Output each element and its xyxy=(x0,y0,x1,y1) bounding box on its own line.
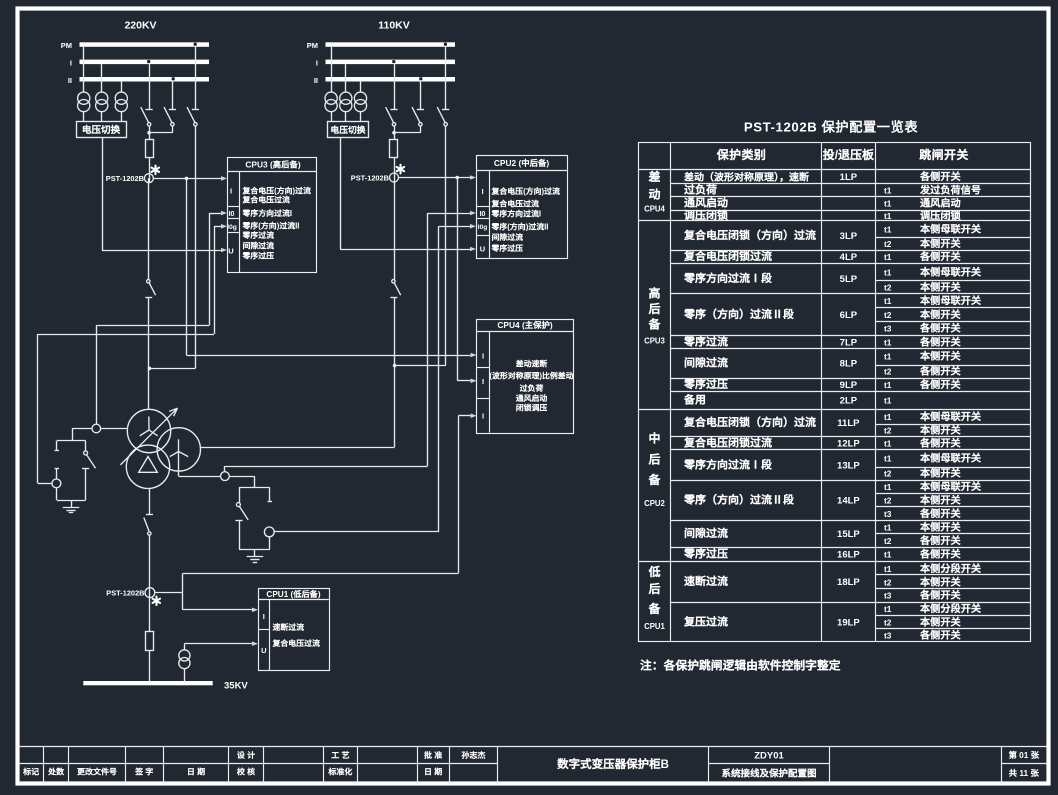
svg-text:零序方向过流Ⅰ段: 零序方向过流Ⅰ段 xyxy=(683,456,773,472)
earth switch 2 pivot xyxy=(236,503,240,507)
svg-text:动: 动 xyxy=(648,186,660,203)
svg-text:t1: t1 xyxy=(884,211,892,221)
svg-text:复压过流: 复压过流 xyxy=(683,613,728,629)
star mark 35kV xyxy=(155,597,157,606)
ZDY01 cell mid line xyxy=(709,763,830,765)
svg-text:CPU1 (低后备): CPU1 (低后备) xyxy=(266,588,320,600)
voltage transformer PT6 110kV xyxy=(354,92,366,104)
wire CPU3 I0 input run xyxy=(209,213,221,215)
wire CT4 tap right xyxy=(155,592,183,594)
svg-text:I: I xyxy=(482,377,484,386)
svg-text:ZDY01: ZDY01 xyxy=(754,751,784,762)
svg-text:调压闭锁: 调压闭锁 xyxy=(684,207,729,223)
voltage transformer PT1 220kV xyxy=(78,92,90,104)
table column lines xyxy=(670,142,672,641)
wire QS5 to junction xyxy=(420,126,422,133)
svg-text:中: 中 xyxy=(648,429,660,446)
svg-text:本侧母联开关: 本侧母联开关 xyxy=(919,220,982,235)
svg-text:电压切换: 电压切换 xyxy=(330,123,365,136)
CT neutral 220kV xyxy=(92,424,101,433)
svg-text:1LP: 1LP xyxy=(840,172,858,183)
breaker switch 110kV xyxy=(392,280,395,283)
wire PT5 drop xyxy=(345,64,347,92)
svg-text:差动速断: 差动速断 xyxy=(515,359,548,370)
transformer T1 LV winding (delta) xyxy=(126,445,169,488)
svg-text:零序（方向）过流Ⅱ段: 零序（方向）过流Ⅱ段 xyxy=(683,492,795,508)
earth switch 1 bottom xyxy=(57,500,86,502)
wire PT35 to CPU1 U xyxy=(184,644,186,650)
svg-text:II: II xyxy=(314,76,318,85)
wire fuse to CT1 xyxy=(149,157,151,182)
svg-text:后: 后 xyxy=(647,580,660,597)
svg-text:6LP: 6LP xyxy=(840,310,858,321)
wire CT3 tap to CPU2 I0g xyxy=(274,531,439,533)
svg-text:复合电压过流: 复合电压过流 xyxy=(272,638,320,649)
bus PM 110kV xyxy=(326,42,456,47)
svg-text:校 核: 校 核 xyxy=(236,767,255,778)
svg-text:PST-1202B: PST-1202B xyxy=(351,173,389,182)
svg-text:差: 差 xyxy=(647,168,660,185)
table header bottom xyxy=(639,169,1031,171)
svg-text:零序方向过流I: 零序方向过流I xyxy=(242,208,293,219)
svg-text:复合电压闭锁过流: 复合电压闭锁过流 xyxy=(683,248,772,264)
svg-text:t2: t2 xyxy=(884,310,892,320)
node on bus I 110kV xyxy=(392,60,395,63)
CT PST-1202B 35kV xyxy=(145,588,155,598)
svg-text:批 准: 批 准 xyxy=(424,750,442,761)
fuse F2 110kV xyxy=(390,140,398,158)
earth switch 1 left branch xyxy=(56,441,58,451)
wire neutral2 to switch xyxy=(229,476,254,478)
svg-text:备: 备 xyxy=(647,471,661,488)
svg-text:t1: t1 xyxy=(884,252,892,262)
wire node D to CPU4 I2 input xyxy=(457,178,459,381)
svg-text:t2: t2 xyxy=(884,469,892,479)
title block mid line left xyxy=(19,763,498,765)
svg-text:14LP: 14LP xyxy=(837,496,860,507)
CT earth 110kV xyxy=(264,527,274,537)
svg-text:I0: I0 xyxy=(480,211,486,218)
svg-text:t1: t1 xyxy=(884,564,892,574)
CPU3 input arrows xyxy=(221,176,227,181)
disconnector QS2 220kV xyxy=(172,82,174,110)
switch3 pivot xyxy=(148,532,151,535)
op-box CPU2 (110kV backup) outline xyxy=(477,156,568,259)
svg-text:本侧母联开关: 本侧母联开关 xyxy=(919,263,982,278)
svg-text:复合电压闭锁（方向）过流: 复合电压闭锁（方向）过流 xyxy=(683,227,816,243)
earth switch 1 right stub xyxy=(85,441,87,451)
svg-text:t1: t1 xyxy=(884,550,892,560)
svg-text:15LP: 15LP xyxy=(837,529,860,540)
svg-text:间隙过流: 间隙过流 xyxy=(684,355,728,371)
svg-text:孙志杰: 孙志杰 xyxy=(462,750,486,761)
wire switch3 to CT4 xyxy=(149,535,151,597)
CT earth 220kV xyxy=(52,479,61,488)
table sub-row lines xyxy=(876,237,1031,239)
svg-text:本侧母联开关: 本侧母联开关 xyxy=(919,450,982,465)
svg-text:16LP: 16LP xyxy=(837,550,860,561)
disconnector QS4 110kV xyxy=(394,64,396,110)
svg-text:t1: t1 xyxy=(884,224,892,234)
wire VT box to CPU3 U input xyxy=(102,137,104,250)
svg-text:本侧母联开关: 本侧母联开关 xyxy=(919,292,982,307)
CPU1 input arrows xyxy=(252,608,258,613)
breaker switch 220kV xyxy=(147,280,150,283)
svg-text:数字式变压器保护柜B: 数字式变压器保护柜B xyxy=(556,756,669,772)
wire QS2 to junction xyxy=(172,126,174,133)
svg-text:CPU1: CPU1 xyxy=(644,622,665,631)
node C main2/QS6 xyxy=(393,364,397,368)
svg-text:110KV: 110KV xyxy=(378,20,410,32)
wire PT4 to box xyxy=(331,112,333,122)
earth switch 2 right lower xyxy=(269,537,271,549)
wire PT4 drop xyxy=(331,47,333,92)
disconnector QS3 220kV xyxy=(195,47,197,110)
wire QS3 drop to node A xyxy=(195,126,197,368)
svg-text:各侧开关: 各侧开关 xyxy=(919,248,962,263)
svg-text:注：各保护跳闸逻辑由软件控制字整定: 注：各保护跳闸逻辑由软件控制字整定 xyxy=(640,657,841,674)
wire QS6 drop to node C xyxy=(445,126,447,366)
wire fuse2 to CT2 xyxy=(394,157,396,182)
svg-text:I0g: I0g xyxy=(478,224,488,231)
svg-text:工 艺: 工 艺 xyxy=(331,750,349,761)
wire PT5 to box xyxy=(345,112,347,122)
wire fuse3 to bus xyxy=(149,651,151,681)
svg-text:复合电压闭锁过流: 复合电压闭锁过流 xyxy=(683,435,772,451)
svg-text:5LP: 5LP xyxy=(840,274,858,285)
op-box CPU3 (220kV backup) outline xyxy=(228,158,317,273)
svg-text:I: I xyxy=(481,187,483,196)
svg-text:CPU4 (主保护): CPU4 (主保护) xyxy=(497,319,553,331)
wire PT2 to box xyxy=(101,112,103,122)
svg-text:各侧开关: 各侧开关 xyxy=(919,546,962,561)
svg-text:标记: 标记 xyxy=(22,767,39,778)
wire CT2 to CPU2 I input xyxy=(398,177,470,179)
table row lines xyxy=(670,183,1030,185)
svg-text:本侧分段开关: 本侧分段开关 xyxy=(919,560,982,575)
wire PT6 drop xyxy=(360,82,362,93)
transformer T1 MV winding xyxy=(157,428,200,471)
svg-text:(波形对称原理)比例差动: (波形对称原理)比例差动 xyxy=(489,371,573,382)
svg-text:I: I xyxy=(316,58,318,67)
svg-text:复合电压过流: 复合电压过流 xyxy=(242,195,290,206)
svg-text:零序过压: 零序过压 xyxy=(683,546,728,562)
voltage switching box 220kV xyxy=(77,122,127,138)
disconnector QS1 220kV xyxy=(149,64,151,110)
CPU2 pin dividers xyxy=(476,206,489,208)
svg-text:零序过压: 零序过压 xyxy=(683,376,728,392)
svg-text:t2: t2 xyxy=(884,617,892,627)
node on bus II 220kV xyxy=(172,77,175,80)
voltage transformer PT3 220kV xyxy=(115,92,127,104)
svg-text:各侧开关: 各侧开关 xyxy=(919,320,962,335)
svg-text:间隙过流: 间隙过流 xyxy=(684,525,728,541)
svg-text:低: 低 xyxy=(647,563,660,580)
table outer box xyxy=(639,143,1031,642)
voltage transformer PT2 220kV xyxy=(96,92,108,104)
svg-text:后: 后 xyxy=(647,451,660,468)
svg-text:t1: t1 xyxy=(884,380,892,390)
svg-text:t2: t2 xyxy=(884,536,892,546)
svg-text:I0: I0 xyxy=(229,211,235,218)
svg-text:零序方向过流Ⅰ段: 零序方向过流Ⅰ段 xyxy=(683,270,773,286)
node QS1/QS2 junction xyxy=(147,131,151,135)
node B on CPU3 wire xyxy=(185,177,189,181)
earth switch 2 left stub xyxy=(239,488,241,503)
svg-text:I: I xyxy=(263,612,265,621)
disconnector QS5 110kV xyxy=(420,82,422,110)
svg-text:3LP: 3LP xyxy=(840,231,858,242)
svg-text:I: I xyxy=(482,351,484,360)
svg-text:保护类别: 保护类别 xyxy=(716,146,767,163)
svg-text:I: I xyxy=(70,58,72,67)
svg-text:t2: t2 xyxy=(884,283,892,293)
svg-text:各侧开关: 各侧开关 xyxy=(919,626,962,641)
svg-text:更改文件号: 更改文件号 xyxy=(77,767,117,778)
svg-text:PST-1202B 保护配置一览表: PST-1202B 保护配置一览表 xyxy=(744,119,919,135)
earth switch 2 crossbar xyxy=(235,520,242,522)
fuse F3 35kV xyxy=(146,632,154,651)
wire PT6 to box xyxy=(360,112,362,122)
earth switch 1 left lower xyxy=(56,488,58,500)
node QS4/QS5 junction xyxy=(392,131,396,135)
wire CT4 to fuse3 xyxy=(149,598,151,632)
earth switch 1 pivot xyxy=(84,451,88,455)
op-box CPU1 (35kV backup) outline xyxy=(259,589,330,671)
wire QS1 to fuse xyxy=(149,126,151,140)
svg-text:I0g: I0g xyxy=(227,224,237,231)
svg-text:速断过流: 速断过流 xyxy=(273,622,305,633)
svg-text:CPU3: CPU3 xyxy=(644,337,665,346)
svg-text:t2: t2 xyxy=(884,578,892,588)
svg-text:t1: t1 xyxy=(884,338,892,348)
CT neutral 110kV xyxy=(221,472,230,481)
title block vertical lines xyxy=(43,747,45,783)
transformer T1 HV winding xyxy=(127,409,170,452)
svg-text:t3: t3 xyxy=(884,509,892,519)
bus 35kV xyxy=(83,681,212,685)
svg-text:签 字: 签 字 xyxy=(134,767,153,778)
svg-text:13LP: 13LP xyxy=(837,460,860,471)
svg-text:闭锁调压: 闭锁调压 xyxy=(516,403,548,414)
svg-text:第 01 张: 第 01 张 xyxy=(1008,749,1040,761)
svg-text:电压切换: 电压切换 xyxy=(82,122,121,136)
wire to CPU4 I3 and CPU1 I xyxy=(182,573,184,609)
svg-text:后: 后 xyxy=(647,300,660,317)
svg-text:系统接线及保护配置图: 系统接线及保护配置图 xyxy=(721,766,816,780)
svg-text:t1: t1 xyxy=(884,395,892,405)
svg-text:CPU3 (高后备): CPU3 (高后备) xyxy=(245,158,301,170)
tap-changer arrow xyxy=(120,408,177,465)
svg-text:零序方向过流I: 零序方向过流I xyxy=(491,209,542,220)
CPU4 pin dividers xyxy=(477,367,490,369)
CT PST-1202B 220kV xyxy=(144,174,153,183)
wire PT3 to box xyxy=(121,112,123,122)
svg-text:零序（方向）过流Ⅱ段: 零序（方向）过流Ⅱ段 xyxy=(683,306,795,322)
star mark 110kV xyxy=(399,165,401,174)
earth switch 2 blade xyxy=(239,506,248,520)
wire CT1 to CPU3 I input xyxy=(153,178,221,180)
svg-text:高: 高 xyxy=(648,284,660,301)
wire node B to CPU4 I1 input xyxy=(186,178,188,355)
svg-text:复合电压(方向)过流: 复合电压(方向)过流 xyxy=(491,186,560,197)
CPU1 pin divider xyxy=(258,629,270,631)
svg-text:U: U xyxy=(480,244,485,253)
svg-text:4LP: 4LP xyxy=(840,252,858,263)
svg-text:U: U xyxy=(261,646,266,655)
svg-text:CPU4: CPU4 xyxy=(644,204,665,213)
sheet cell mid line xyxy=(1001,763,1047,765)
svg-text:备: 备 xyxy=(647,316,661,333)
table group boundary lines xyxy=(639,220,1031,222)
svg-text:t1: t1 xyxy=(884,523,892,533)
svg-text:间隙过流: 间隙过流 xyxy=(492,232,524,243)
earth switch 2 bottom xyxy=(239,549,270,551)
svg-text:各侧开关: 各侧开关 xyxy=(919,334,962,349)
earth switch 2 frame top xyxy=(239,487,270,489)
svg-text:t1: t1 xyxy=(884,199,892,209)
svg-text:t2: t2 xyxy=(884,239,892,249)
wire PT1 to box xyxy=(83,112,85,122)
wire main to transformer xyxy=(148,297,150,409)
svg-text:I: I xyxy=(230,186,232,195)
svg-text:投/退压板: 投/退压板 xyxy=(823,146,875,163)
svg-text:设 计: 设 计 xyxy=(237,750,255,761)
svg-text:2LP: 2LP xyxy=(840,395,858,406)
svg-text:日 期: 日 期 xyxy=(187,767,205,778)
wire main2 down to transformer xyxy=(394,297,396,447)
wire CPU3 I0g input run xyxy=(214,226,222,228)
svg-text:速断过流: 速断过流 xyxy=(684,573,728,589)
ground 2 xyxy=(254,549,256,556)
svg-text:日 期: 日 期 xyxy=(424,767,442,778)
svg-text:t1: t1 xyxy=(884,352,892,362)
svg-text:t1: t1 xyxy=(884,412,892,422)
voltage transformer PT5 110kV xyxy=(340,92,352,104)
node on bus II 110kV xyxy=(419,77,422,80)
bus II 220kV xyxy=(80,77,210,82)
node on bus PM 220kV xyxy=(194,43,197,46)
svg-text:t1: t1 xyxy=(884,454,892,464)
CPU3 pin dividers xyxy=(227,206,239,208)
svg-text:18LP: 18LP xyxy=(837,577,860,588)
bus II 110kV xyxy=(326,77,456,82)
svg-text:8LP: 8LP xyxy=(840,359,858,370)
wire PT3 drop 220kV xyxy=(121,82,123,93)
svg-text:备用: 备用 xyxy=(683,391,706,407)
svg-text:t1: t1 xyxy=(884,185,892,195)
wire 110kV main down xyxy=(394,182,396,280)
CPU2 input arrows xyxy=(470,175,476,180)
svg-text:CPU2 (中后备): CPU2 (中后备) xyxy=(494,157,550,169)
switch3 blade xyxy=(144,518,149,532)
switch3 crossbar xyxy=(146,514,153,516)
earth switch 1 crossbar xyxy=(82,468,89,470)
svg-text:本侧开关: 本侧开关 xyxy=(919,348,962,363)
svg-text:t2: t2 xyxy=(884,367,892,377)
svg-text:零序过压: 零序过压 xyxy=(491,243,524,254)
svg-text:t3: t3 xyxy=(884,591,892,601)
node A main/QS3 xyxy=(148,367,152,371)
svg-text:零序过流: 零序过流 xyxy=(683,334,728,350)
svg-text:t1: t1 xyxy=(884,604,892,614)
wire VT box to CPU2 U input xyxy=(340,137,342,249)
wire drop to earth switch 1 xyxy=(72,429,74,441)
svg-text:9LP: 9LP xyxy=(840,380,858,391)
svg-text:PST-1202B: PST-1202B xyxy=(106,589,144,598)
svg-text:II: II xyxy=(68,76,72,85)
disconnector QS6 110kV xyxy=(445,47,447,110)
wire PT35 to bus xyxy=(184,669,186,681)
svg-text:t1: t1 xyxy=(884,439,892,449)
svg-text:19LP: 19LP xyxy=(837,617,860,628)
svg-text:t3: t3 xyxy=(884,630,892,640)
star mark 220kV xyxy=(154,166,156,175)
title block top line xyxy=(19,746,1047,748)
svg-text:复合电压闭锁（方向）过流: 复合电压闭锁（方向）过流 xyxy=(683,414,816,430)
svg-text:CPU2: CPU2 xyxy=(644,499,665,508)
svg-text:处数: 处数 xyxy=(47,767,65,778)
CT PST-1202B 110kV xyxy=(390,173,399,182)
svg-text:12LP: 12LP xyxy=(837,439,860,450)
svg-text:各侧开关: 各侧开关 xyxy=(919,435,962,450)
svg-text:t3: t3 xyxy=(884,324,892,334)
earth switch 2 right branch xyxy=(269,488,271,502)
wire PT1 drop 220kV xyxy=(83,47,85,92)
CPU4 input arrows xyxy=(471,353,477,358)
op-box CPU4 (main prot) outline xyxy=(477,320,574,434)
svg-text:35KV: 35KV xyxy=(224,681,248,692)
svg-text:备: 备 xyxy=(647,600,661,617)
svg-text:t2: t2 xyxy=(884,495,892,505)
voltage transformer PT4 110kV xyxy=(325,92,337,104)
svg-text:t2: t2 xyxy=(884,426,892,436)
svg-text:t1: t1 xyxy=(884,267,892,277)
earth switch 1 blade xyxy=(87,455,96,469)
svg-text:标准化: 标准化 xyxy=(327,767,352,778)
svg-text:11LP: 11LP xyxy=(837,418,860,429)
earth switch 2 left lower xyxy=(239,520,241,549)
svg-text:共 11 张: 共 11 张 xyxy=(1009,767,1040,779)
node on bus PM 110kV xyxy=(444,43,447,46)
voltage switching box 110kV xyxy=(328,122,369,138)
earth switch 1 right lower xyxy=(85,469,87,500)
svg-text:t1: t1 xyxy=(884,482,892,492)
ground 1 xyxy=(71,500,73,507)
svg-text:7LP: 7LP xyxy=(840,338,858,349)
svg-text:零序(方向)过流II: 零序(方向)过流II xyxy=(491,221,549,232)
svg-text:零序过压: 零序过压 xyxy=(242,250,275,261)
PT 35kV xyxy=(179,650,190,661)
wire 220kV main down xyxy=(148,178,150,279)
svg-text:PM: PM xyxy=(61,41,72,50)
wire QS4 to fuse xyxy=(394,126,396,140)
wire CT tap to CPU2 I0 xyxy=(224,466,226,472)
wire neutral horizontal xyxy=(72,428,92,430)
wire delta to switch3 xyxy=(149,489,151,515)
bus I 110kV xyxy=(326,60,456,65)
earth switch 1 frame top xyxy=(57,440,86,442)
svg-text:U: U xyxy=(228,246,233,255)
svg-text:跳闸开关: 跳闸开关 xyxy=(919,146,969,163)
wire MV winding down xyxy=(178,471,180,476)
wire PT2 drop 220kV xyxy=(101,64,103,92)
node on bus I 220kV xyxy=(147,60,150,63)
svg-text:PM: PM xyxy=(307,41,318,50)
svg-text:各侧开关: 各侧开关 xyxy=(919,376,962,391)
node D on CPU2 wire xyxy=(455,176,459,180)
svg-text:I: I xyxy=(482,411,484,420)
